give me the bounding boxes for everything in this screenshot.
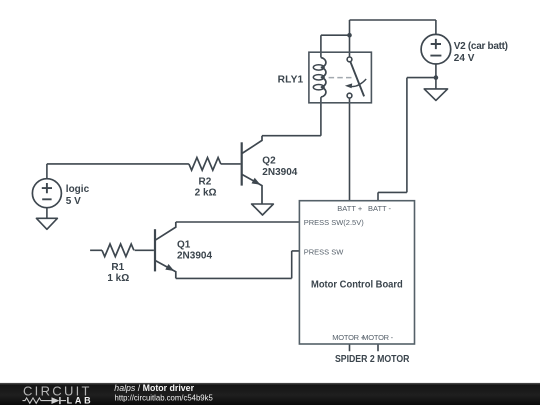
svg-text:2N3904: 2N3904 [262,167,297,178]
svg-text:LAB: LAB [67,395,92,405]
svg-text:BATT -: BATT - [368,204,392,213]
svg-text:R2: R2 [199,177,212,188]
svg-text:MOTOR -: MOTOR - [362,333,393,342]
svg-text:PRESS SW(2.5V): PRESS SW(2.5V) [304,218,365,227]
svg-text:24 V: 24 V [454,53,475,64]
svg-text:2N3904: 2N3904 [177,250,212,261]
svg-text:BATT +: BATT + [337,204,363,213]
svg-text:2 kΩ: 2 kΩ [195,188,217,199]
svg-text:SPIDER 2 MOTOR: SPIDER 2 MOTOR [335,354,410,365]
svg-text:R1: R1 [111,262,124,273]
svg-text:Motor Control Board: Motor Control Board [311,280,403,291]
svg-text:Q1: Q1 [177,239,191,250]
svg-text:V2 (car batt): V2 (car batt) [454,41,508,52]
svg-text:Q2: Q2 [262,155,276,166]
svg-text:logic: logic [66,184,90,195]
svg-text:PRESS SW: PRESS SW [304,248,345,257]
svg-text:1 kΩ: 1 kΩ [107,273,129,284]
svg-text:RLY1: RLY1 [278,75,304,86]
svg-text:http://circuitlab.com/c54b9k5: http://circuitlab.com/c54b9k5 [115,393,214,403]
svg-text:MOTOR +: MOTOR + [332,333,365,342]
svg-text:5 V: 5 V [66,196,81,207]
